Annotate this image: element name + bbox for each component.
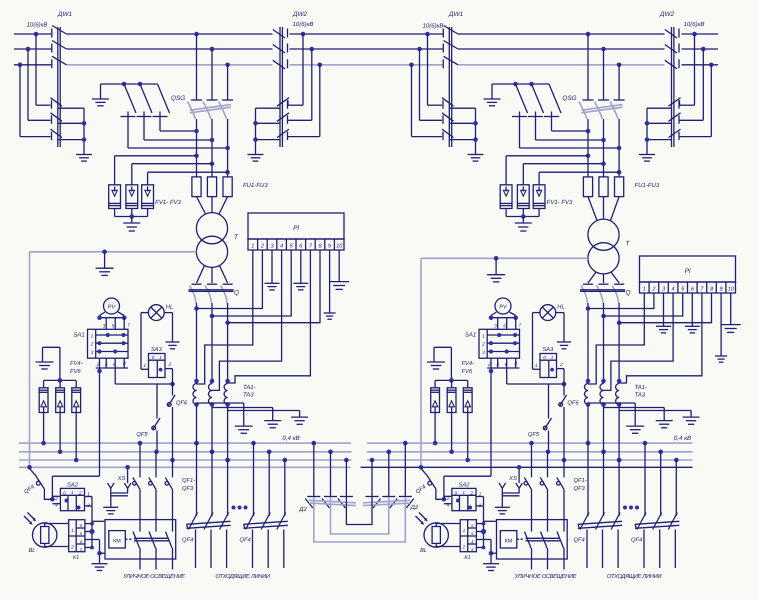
breaker QF4 control right bbox=[415, 474, 444, 499]
svg-text:1: 1 bbox=[482, 334, 485, 340]
wire drops from QW2 taps right bbox=[680, 34, 712, 137]
switch Q right bbox=[580, 284, 631, 303]
svg-text:QF4: QF4 bbox=[631, 537, 642, 544]
switch SA1 right bbox=[465, 323, 522, 368]
surge arresters FV4-FV6 right bbox=[431, 361, 474, 413]
svg-text:QF4: QF4 bbox=[240, 537, 251, 544]
svg-text:0: 0 bbox=[543, 355, 546, 360]
svg-text:SA1: SA1 bbox=[73, 332, 84, 339]
svg-text:КМ: КМ bbox=[505, 539, 513, 545]
label D2 left bbox=[298, 506, 307, 513]
bus 10(6)kV line L3 bbox=[14, 64, 718, 66]
wire QSG phase drops left bbox=[197, 34, 228, 100]
label outgoing lines left bbox=[215, 573, 271, 580]
ground of Pl terminal 9 right bbox=[715, 293, 727, 362]
bus 10(6)kV line L2 bbox=[14, 48, 718, 50]
ground of Pl terminal 6 left bbox=[293, 250, 308, 290]
disconnector QW2 blades bbox=[273, 30, 285, 69]
label QW2 right bbox=[659, 11, 675, 18]
svg-text:FV4-: FV4- bbox=[70, 361, 83, 367]
socket XS left bbox=[108, 465, 131, 507]
svg-text:FU1-FU3: FU1-FU3 bbox=[635, 182, 660, 189]
svg-text:10: 10 bbox=[336, 243, 343, 249]
svg-text:7: 7 bbox=[127, 323, 130, 329]
svg-text:Q: Q bbox=[626, 290, 631, 297]
svg-text:3: 3 bbox=[494, 324, 497, 330]
switch SA1 left bbox=[73, 323, 130, 368]
bus 10(6)kV line L1 bbox=[14, 33, 718, 35]
node QSG outputs left bbox=[194, 119, 230, 177]
svg-text:ДW2: ДW2 bbox=[292, 11, 308, 18]
outgoing feeder group 1 right bbox=[574, 441, 623, 568]
label QW1 right bbox=[448, 11, 464, 18]
transformer T left bbox=[196, 213, 239, 268]
ground of transformer neutral right bbox=[487, 258, 505, 282]
node repetition dots left bbox=[232, 506, 248, 510]
wire SA2 pin3 to relay K1 right bbox=[476, 506, 496, 561]
wire PV to SA1 left bbox=[97, 312, 126, 329]
ground bracket left of SA1 left bbox=[43, 347, 63, 382]
disconnector QW1 isolating contacts bbox=[51, 29, 53, 69]
svg-text:5: 5 bbox=[112, 324, 115, 330]
svg-text:К1: К1 bbox=[464, 555, 470, 561]
svg-text:К1: К1 bbox=[73, 555, 79, 561]
svg-text:FV1- FV3: FV1- FV3 bbox=[547, 199, 573, 206]
svg-text:2: 2 bbox=[462, 545, 466, 551]
svg-text:ОТХОДЯЩИЕ ЛИНИИ: ОТХОДЯЩИЕ ЛИНИИ bbox=[607, 573, 663, 580]
ground of CT link 2 right bbox=[656, 408, 673, 428]
svg-text:SA3: SA3 bbox=[151, 346, 163, 353]
ground of CT link 1 left bbox=[235, 403, 253, 433]
svg-text:1: 1 bbox=[143, 363, 146, 369]
terminal block Pl right bbox=[640, 256, 736, 293]
disconnector QW2 bars bbox=[280, 27, 282, 147]
svg-text:0: 0 bbox=[152, 355, 155, 360]
transformer T right bbox=[588, 219, 631, 274]
ground of HL right bbox=[557, 342, 571, 349]
svg-text:SA2: SA2 bbox=[459, 482, 471, 489]
node QSG outputs right bbox=[586, 119, 622, 177]
transfer disconnector blades left bbox=[51, 98, 63, 140]
svg-text:QF4: QF4 bbox=[182, 537, 193, 544]
transformer neutral wire right bbox=[421, 256, 588, 467]
disconnector QW1 right isolating contacts bbox=[442, 29, 444, 69]
ground of FV1-FV3 left bbox=[123, 217, 140, 232]
svg-text:QF6: QF6 bbox=[567, 400, 579, 407]
bus 0.4kV line B2 bbox=[19, 451, 693, 453]
disconnector QW1 blades bbox=[52, 26, 67, 65]
current transformers TA1-TA3 right bbox=[585, 384, 648, 405]
wire PV to SA1 right bbox=[489, 312, 518, 329]
fuses FU1-FU3 right bbox=[583, 177, 659, 197]
ground of transfer disconnector right bbox=[468, 155, 484, 162]
label 10(6)kV left bbox=[27, 22, 48, 29]
svg-text:1: 1 bbox=[251, 243, 254, 249]
svg-text:FV4-: FV4- bbox=[462, 361, 475, 367]
switch Q left bbox=[189, 284, 240, 303]
label street lighting right bbox=[514, 573, 577, 580]
bus 0.4kV line B1 bbox=[19, 442, 693, 444]
svg-text:BL: BL bbox=[420, 548, 427, 554]
svg-text:QF6: QF6 bbox=[176, 400, 188, 407]
transfer disconnector blades right bbox=[442, 98, 454, 140]
svg-text:QSG: QSG bbox=[562, 95, 576, 102]
svg-text:SA3: SA3 bbox=[542, 346, 554, 353]
wire SA1 pin2 control drop right bbox=[444, 358, 493, 476]
wire SA3 pin2 to QF6 left bbox=[165, 369, 173, 396]
terminal block Pl left bbox=[248, 213, 344, 250]
lamp HL left bbox=[148, 305, 173, 321]
photocell BL left bbox=[24, 513, 69, 555]
svg-text:Pl: Pl bbox=[685, 268, 691, 275]
label 10(6)kV left QW2 bbox=[293, 21, 314, 28]
label QW1 bbox=[57, 11, 73, 18]
disconnector QW1 right bars bbox=[449, 27, 451, 147]
svg-text:1: 1 bbox=[91, 334, 94, 340]
photocell BL right bbox=[416, 513, 461, 555]
svg-text:4: 4 bbox=[280, 243, 283, 249]
label street lighting left bbox=[122, 573, 185, 580]
svg-text:QF3: QF3 bbox=[182, 485, 194, 492]
svg-text:3: 3 bbox=[103, 324, 106, 330]
svg-text:TA1-: TA1- bbox=[243, 384, 256, 391]
ground of control circuit right bbox=[483, 561, 499, 571]
svg-text:1: 1 bbox=[159, 355, 162, 360]
svg-text:ДW2: ДW2 bbox=[659, 11, 675, 18]
svg-text:9: 9 bbox=[720, 286, 723, 292]
svg-text:7: 7 bbox=[519, 323, 522, 329]
fuses FU1-FU3 left bbox=[192, 177, 268, 197]
svg-text:QF5: QF5 bbox=[136, 431, 148, 438]
svg-text:QF5: QF5 bbox=[528, 431, 540, 438]
svg-text:Д2: Д2 bbox=[410, 504, 419, 511]
breaker QF4 control left bbox=[23, 474, 52, 499]
svg-text:5: 5 bbox=[503, 324, 506, 330]
wire QSG phase drops right bbox=[588, 34, 619, 100]
ground of control circuit left bbox=[92, 561, 108, 571]
svg-text:SA2: SA2 bbox=[67, 482, 79, 489]
earthing switch QSG left bbox=[171, 95, 233, 119]
switch SA3 left bbox=[143, 346, 171, 377]
disconnector QW1 bars bbox=[58, 27, 60, 147]
svg-text:2: 2 bbox=[559, 362, 563, 368]
switch SA3 right bbox=[535, 346, 563, 377]
bus 0.4kV line B3 bbox=[19, 459, 693, 461]
svg-text:3: 3 bbox=[91, 350, 94, 356]
svg-text:10(6)кВ: 10(6)кВ bbox=[684, 21, 705, 28]
wire CT outputs to buses right bbox=[586, 402, 622, 462]
wire HL leads left bbox=[141, 313, 173, 370]
node line taps left of QW1 right bbox=[409, 32, 430, 67]
wire CT earthing links left bbox=[197, 403, 300, 411]
breaker QF5 left bbox=[136, 384, 160, 454]
svg-text:УЛИЧНОЕ ОСВЕЩЕНИЕ: УЛИЧНОЕ ОСВЕЩЕНИЕ bbox=[122, 573, 185, 580]
svg-text:1: 1 bbox=[643, 286, 646, 292]
label QW2 bbox=[292, 11, 308, 18]
wire CT earthing links right bbox=[588, 403, 691, 411]
switch SA2 right bbox=[442, 476, 484, 511]
disconnector QW2 right blades bbox=[665, 30, 677, 69]
earthing switch QSG right bbox=[562, 95, 624, 119]
contactor cabinet KM right bbox=[497, 520, 568, 570]
wire fuse to transformer links right bbox=[588, 197, 619, 221]
transfer disconnector 2 output wires left bbox=[253, 108, 280, 154]
label 10(6)kV right QW2 bbox=[684, 21, 705, 28]
svg-text:QF3: QF3 bbox=[574, 485, 586, 492]
svg-text:1: 1 bbox=[71, 528, 74, 534]
ground of CT link 2 left bbox=[264, 408, 281, 428]
ground of CT link 3 left bbox=[291, 411, 308, 425]
svg-text:SA1: SA1 bbox=[465, 332, 476, 339]
ground of XS right bbox=[495, 507, 510, 514]
svg-text:2: 2 bbox=[70, 545, 74, 551]
wire drops to transfer disconnector right bbox=[412, 34, 443, 137]
svg-text:10(6)кВ: 10(6)кВ bbox=[27, 22, 48, 29]
breaker QF5 right bbox=[528, 384, 552, 454]
svg-text:XS: XS bbox=[117, 475, 126, 482]
ground of CT link 1 right bbox=[626, 403, 644, 433]
ground of QSG right bbox=[484, 84, 501, 106]
svg-text:10(6)кВ: 10(6)кВ bbox=[293, 21, 314, 28]
ground bracket left of SA1 right bbox=[434, 347, 454, 382]
svg-text:1: 1 bbox=[463, 528, 466, 534]
svg-text:1: 1 bbox=[535, 363, 538, 369]
switch SA2 left bbox=[50, 476, 92, 511]
wire taps to arresters FV1-FV3 left bbox=[115, 154, 230, 185]
wire SA1 lower pins left bbox=[96, 358, 175, 386]
ground of transfer disconnector 2 right bbox=[639, 155, 655, 162]
svg-text:ДW1: ДW1 bbox=[57, 11, 73, 18]
transfer disconnector 2 blades left bbox=[277, 98, 289, 140]
svg-text:ДW1: ДW1 bbox=[448, 11, 464, 18]
ground of PV circuit left bbox=[36, 347, 54, 369]
wire bus to QF4 control tap right bbox=[419, 465, 426, 475]
svg-text:0,4 кВ: 0,4 кВ bbox=[282, 435, 299, 442]
node QSG phase taps left bbox=[194, 32, 230, 67]
earthing switch QSG ground side left bbox=[101, 82, 228, 148]
node line taps right of QW2 right bbox=[692, 32, 713, 67]
svg-text:XS: XS bbox=[508, 475, 517, 482]
svg-text:TA1-: TA1- bbox=[635, 384, 648, 391]
svg-text:2: 2 bbox=[167, 362, 171, 368]
disconnector QW2 isolating contacts bbox=[287, 29, 289, 69]
svg-text:ОТХОДЯЩИЕ ЛИНИИ: ОТХОДЯЩИЕ ЛИНИИ bbox=[215, 573, 271, 580]
ground of Pl terminal 6 right bbox=[685, 293, 700, 333]
label 0.4 kV left bbox=[282, 435, 299, 442]
wire SA1 pin2 control drop left bbox=[52, 358, 101, 476]
wire HL leads right bbox=[533, 313, 565, 370]
breaker QF6 left bbox=[167, 395, 188, 462]
wire SA3 pin2 to QF6 right bbox=[557, 369, 565, 396]
wire taps to arresters FV1-FV3 right bbox=[506, 154, 621, 185]
ground of QSG left bbox=[92, 84, 109, 106]
svg-text:10: 10 bbox=[728, 286, 735, 292]
ground of Pl terminal 9 left bbox=[324, 250, 336, 319]
svg-text:Pl: Pl bbox=[293, 225, 299, 232]
svg-text:TA3: TA3 bbox=[635, 392, 646, 399]
ground of HL left bbox=[166, 342, 180, 349]
wire drops to transfer disconnector left bbox=[20, 34, 51, 137]
svg-text:КМ: КМ bbox=[113, 539, 121, 545]
svg-text:BL: BL bbox=[29, 548, 36, 554]
svg-text:HL: HL bbox=[557, 305, 564, 311]
svg-text:0,4 кВ: 0,4 кВ bbox=[674, 435, 691, 442]
wire LV phase drops right bbox=[586, 303, 622, 384]
bus 0.4kV neutral B4 bbox=[19, 466, 693, 468]
transfer disconnector output wires left bbox=[59, 108, 87, 154]
svg-text:TA3: TA3 bbox=[243, 392, 254, 399]
svg-text:QF4: QF4 bbox=[574, 537, 585, 544]
wire CT outputs to buses left bbox=[194, 402, 230, 462]
ground of PV circuit right bbox=[427, 347, 445, 369]
ground of transfer disconnector left bbox=[76, 155, 92, 162]
svg-text:2: 2 bbox=[78, 490, 82, 495]
disconnector QW2 right isolating contacts bbox=[678, 29, 680, 69]
wire Pl terminal leads right bbox=[588, 293, 712, 390]
svg-text:1: 1 bbox=[551, 355, 554, 360]
wire transformer to switch Q links left bbox=[197, 266, 228, 284]
wire Pl terminal leads left bbox=[197, 250, 321, 390]
contactor cabinet KM left bbox=[105, 520, 176, 570]
svg-text:3: 3 bbox=[482, 350, 485, 356]
svg-text:FV6: FV6 bbox=[462, 368, 473, 375]
wire bus to QF4 control tap left bbox=[27, 465, 34, 475]
svg-text:QF1-: QF1- bbox=[182, 477, 195, 484]
svg-text:FU1-FU3: FU1-FU3 bbox=[243, 182, 268, 189]
svg-text:QSG: QSG bbox=[171, 95, 185, 102]
outgoing feeder group 2 right bbox=[631, 441, 679, 568]
svg-text:Д2: Д2 bbox=[298, 506, 307, 513]
bus tie section switch D2 bbox=[305, 441, 414, 542]
svg-text:PV: PV bbox=[108, 305, 117, 311]
wire SA2 pin3 to relay K1 left bbox=[85, 506, 105, 561]
svg-text:УЛИЧНОЕ ОСВЕЩЕНИЕ: УЛИЧНОЕ ОСВЕЩЕНИЕ bbox=[514, 573, 577, 580]
svg-text:QF1-: QF1- bbox=[574, 477, 587, 484]
node line taps left of QW1 left bbox=[18, 32, 39, 67]
ground of Pl terminal 10 left bbox=[329, 250, 349, 289]
svg-text:10(6)кВ: 10(6)кВ bbox=[423, 23, 444, 30]
node line taps right of QW2 left bbox=[301, 32, 322, 67]
wire transformer to switch Q links right bbox=[588, 272, 619, 283]
transfer disconnector 2 blades right bbox=[669, 98, 681, 140]
breakers QF1-QF3 left bbox=[133, 441, 196, 532]
ground of Pl terminal 3 left bbox=[265, 250, 280, 290]
wire drops from QW2 taps left bbox=[288, 34, 320, 137]
breaker QF6 right bbox=[559, 395, 580, 462]
ground of transfer disconnector 2 left bbox=[248, 155, 264, 162]
node repetition dots right bbox=[623, 506, 639, 510]
surge arresters FV4-FV6 left bbox=[39, 361, 82, 413]
ground of Pl terminal 3 right bbox=[656, 293, 671, 333]
outgoing feeder group 1 left bbox=[182, 441, 231, 568]
disconnector QW1 right blades bbox=[444, 26, 459, 65]
ground of transformer neutral left bbox=[96, 252, 114, 276]
node QSG phase taps right bbox=[586, 32, 622, 67]
surge arresters FV1-FV3 right bbox=[500, 185, 573, 219]
lamp HL right bbox=[540, 305, 565, 321]
socket XS right bbox=[499, 465, 522, 507]
wire fuse to transformer links left bbox=[197, 197, 228, 214]
wire FV4-FV6 to buses left bbox=[41, 413, 78, 463]
svg-text:4: 4 bbox=[672, 286, 675, 292]
ground of FV1-FV3 right bbox=[515, 217, 532, 232]
wire LV phase drops left bbox=[194, 303, 230, 384]
surge arresters FV1-FV3 left bbox=[109, 185, 182, 219]
outgoing feeder group 2 left bbox=[240, 441, 288, 568]
wire FV4-FV6 to buses right bbox=[433, 413, 470, 463]
svg-text:2: 2 bbox=[481, 342, 485, 348]
svg-text:9: 9 bbox=[328, 243, 331, 249]
label 0.4 kV right bbox=[674, 435, 691, 442]
breakers QF1-QF3 right bbox=[524, 441, 587, 532]
voltmeter PV right bbox=[495, 298, 511, 314]
label 10(6)kV right QW1 bbox=[423, 23, 444, 30]
ground of XS left bbox=[103, 507, 118, 514]
svg-text:HL: HL bbox=[166, 305, 173, 311]
relay K1 right bbox=[460, 520, 476, 561]
transfer disconnector 2 output wires right bbox=[645, 108, 672, 154]
wire SA1 lower pins right bbox=[487, 358, 566, 386]
earthing switch QSG ground side right bbox=[492, 82, 619, 148]
current transformers TA1-TA3 left bbox=[193, 384, 256, 405]
svg-text:FV1- FV3: FV1- FV3 bbox=[155, 199, 181, 206]
relay K1 left bbox=[69, 520, 85, 561]
transfer disconnector output wires right bbox=[450, 108, 478, 154]
label D2 right bbox=[410, 504, 419, 511]
ground of CT link 3 right bbox=[683, 411, 700, 425]
svg-text:FV6: FV6 bbox=[70, 368, 81, 375]
svg-text:Q: Q bbox=[234, 290, 239, 297]
svg-text:2: 2 bbox=[469, 490, 473, 495]
disconnector QW2 right bars bbox=[672, 27, 674, 147]
svg-text:PV: PV bbox=[499, 305, 508, 311]
svg-text:2: 2 bbox=[90, 342, 94, 348]
label outgoing lines right bbox=[607, 573, 663, 580]
voltmeter PV left bbox=[104, 298, 120, 314]
transformer neutral wire left bbox=[30, 250, 197, 468]
ground of Pl terminal 10 right bbox=[721, 293, 741, 332]
